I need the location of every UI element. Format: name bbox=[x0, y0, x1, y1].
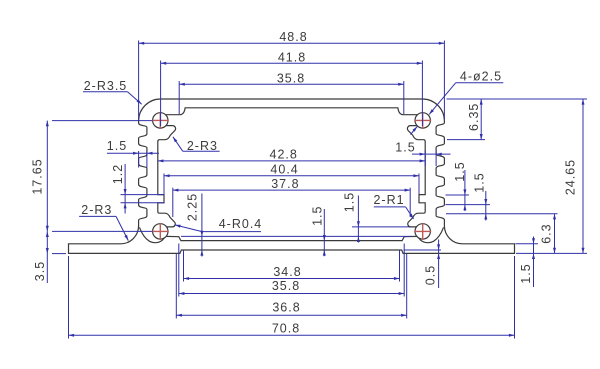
dimension 6.35 top boss depth bbox=[447, 99, 588, 140]
svg-text:1.5: 1.5 bbox=[395, 141, 415, 155]
leader 2-R1 bottom boss slot radius bbox=[373, 193, 413, 219]
dimension 36.8 bottom inner width bbox=[176, 254, 406, 319]
dimension 1.5 boss lip to pad bbox=[342, 192, 410, 243]
svg-text:70.8: 70.8 bbox=[272, 321, 300, 335]
dimension 24.65 overall height bbox=[516, 99, 587, 253]
svg-text:6.3: 6.3 bbox=[539, 223, 553, 243]
svg-text:2-R3: 2-R3 bbox=[81, 203, 112, 217]
dimension 1.5 left wall thickness bbox=[107, 139, 159, 168]
svg-text:41.8: 41.8 bbox=[278, 51, 306, 65]
dimension 48.8 overall body width bbox=[139, 30, 445, 119]
dimension 1.5 floor thickness bbox=[310, 206, 326, 257]
dimension 34.8 bottom recess width bbox=[184, 251, 400, 282]
bottom-left screw hole bbox=[153, 224, 168, 239]
left bottom boss web line bbox=[139, 227, 164, 242]
right wall inner edge with screw boss mouths and PCB rib bbox=[407, 126, 425, 227]
svg-text:37.8: 37.8 bbox=[271, 177, 299, 191]
dimension 1.5 right wall fin pitch lower bbox=[473, 172, 488, 220]
svg-text:17.65: 17.65 bbox=[31, 158, 45, 194]
dimension 1.2 rib height bbox=[111, 164, 165, 214]
extension line boss pad level bbox=[181, 235, 412, 237]
bottom-right hole center mark bbox=[414, 223, 431, 240]
dimension 1.5 flange thickness bbox=[516, 237, 539, 288]
leader 2-R3 wall to flange radius bbox=[79, 203, 128, 240]
svg-text:1.5: 1.5 bbox=[519, 263, 533, 283]
svg-text:1.5: 1.5 bbox=[342, 192, 356, 212]
svg-text:1.5: 1.5 bbox=[453, 161, 467, 181]
svg-text:48.8: 48.8 bbox=[279, 30, 307, 44]
leader 4-ø2.5 screw holes bbox=[411, 69, 504, 134]
svg-text:2-R1: 2-R1 bbox=[373, 193, 404, 207]
right bottom boss web line bbox=[419, 227, 444, 242]
svg-text:1.5: 1.5 bbox=[310, 206, 324, 226]
svg-text:3.5: 3.5 bbox=[33, 261, 47, 281]
dimension 6.3 bottom boss to base bbox=[446, 214, 558, 254]
svg-text:24.65: 24.65 bbox=[564, 159, 578, 195]
dimension 1.5 right wall fin pitch upper bbox=[446, 161, 491, 211]
dimension 70.8 overall width bbox=[69, 256, 515, 339]
top-right hole center mark bbox=[414, 112, 431, 129]
dimension 1.5 right wall thickness bbox=[395, 141, 450, 167]
top-left screw hole bbox=[153, 113, 168, 128]
svg-text:2.25: 2.25 bbox=[186, 193, 200, 221]
svg-text:4-R0.4: 4-R0.4 bbox=[219, 217, 263, 231]
dimension 42.8 interior width bbox=[158, 147, 425, 162]
svg-text:1.5: 1.5 bbox=[107, 139, 127, 153]
svg-text:4-ø2.5: 4-ø2.5 bbox=[460, 69, 502, 83]
leader 2-R3 boss slot radius bbox=[173, 137, 220, 153]
svg-text:35.8: 35.8 bbox=[277, 71, 305, 85]
dimension 2.25 boss pad to base bbox=[186, 193, 204, 257]
svg-text:2-R3.5: 2-R3.5 bbox=[84, 79, 128, 93]
svg-text:34.8: 34.8 bbox=[273, 265, 301, 279]
leader 4-R0.4 pad fillet radius bbox=[175, 217, 262, 232]
left wall inner edge with screw boss mouths and PCB rib bbox=[158, 126, 176, 227]
svg-text:40.4: 40.4 bbox=[270, 162, 298, 176]
top-right screw hole bbox=[415, 113, 430, 128]
bottom-left hole center mark bbox=[152, 223, 169, 240]
svg-text:1.2: 1.2 bbox=[111, 164, 125, 184]
top-left hole center mark bbox=[152, 112, 169, 129]
dimension 41.8 width between corner radii bbox=[161, 51, 423, 127]
svg-text:42.8: 42.8 bbox=[270, 147, 298, 161]
dimension 3.5 hole to bottom bbox=[33, 231, 66, 283]
dimension 0.5 bottom step bbox=[404, 240, 442, 289]
dimension 17.65 screw hole spacing bbox=[31, 121, 153, 232]
bottom floor inner surface with boss pads bbox=[166, 236, 417, 240]
svg-text:6.35: 6.35 bbox=[467, 103, 481, 131]
enclosure profile outer contour bbox=[69, 99, 515, 253]
leader 2-R3.5 top corner radius bbox=[83, 79, 142, 104]
svg-text:1.5: 1.5 bbox=[473, 172, 487, 192]
dimension 40.4 width between ribs bbox=[164, 162, 419, 194]
svg-text:0.5: 0.5 bbox=[423, 265, 437, 285]
svg-text:35.8: 35.8 bbox=[272, 279, 300, 293]
svg-text:36.8: 36.8 bbox=[272, 300, 300, 314]
dimension 37.8 width between boss slots bbox=[173, 177, 410, 217]
bottom-right screw hole bbox=[415, 224, 430, 239]
top plate inner surface with screw-boss pads bbox=[166, 108, 417, 115]
dimension 35.8 top inner width bbox=[179, 71, 404, 114]
dimension 35.8 bottom step width bbox=[179, 244, 404, 297]
